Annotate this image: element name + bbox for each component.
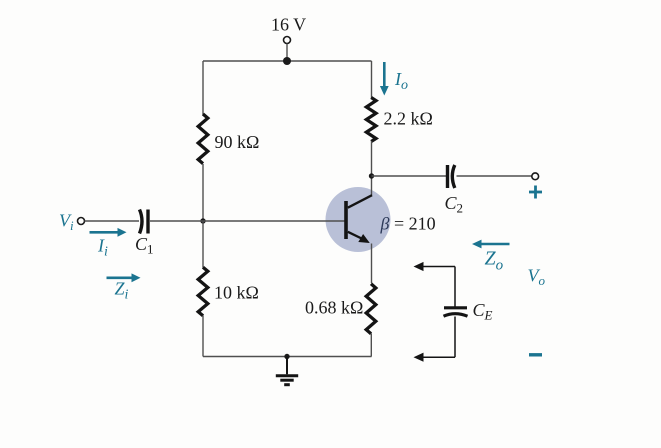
arrow Io — [380, 62, 389, 96]
wire left branch upper — [202, 61, 204, 115]
wire 0.68k to bottom rail — [370, 334, 372, 357]
wire 2.2k to collector — [371, 141, 373, 196]
wire base node down — [202, 221, 204, 268]
resistor 90 kOhm — [198, 114, 208, 164]
wire CE upper — [454, 267, 456, 308]
arrow Ii — [90, 228, 127, 237]
wire CE lower — [454, 317, 456, 358]
resistor 0.68 kOhm — [366, 284, 376, 334]
svg-text:β = 210: β = 210 — [380, 214, 436, 234]
wire input to C1 — [85, 220, 139, 222]
svg-text:0.68 kΩ: 0.68 kΩ — [305, 298, 363, 318]
bracket CE top with arrow — [414, 262, 456, 271]
capacitor C1 — [140, 210, 149, 234]
label minus — [529, 353, 542, 356]
arrow Zo — [472, 240, 510, 249]
label plus — [529, 186, 542, 199]
node ground junction — [284, 354, 289, 359]
transistor Q1 — [344, 195, 372, 243]
output terminal — [532, 173, 539, 180]
wire 90k to base node — [202, 164, 204, 221]
wire right branch upper — [371, 61, 373, 98]
node base junction — [200, 218, 205, 223]
bracket CE bottom with arrow — [414, 353, 456, 362]
wire emitter down — [371, 244, 373, 284]
transistor highlight circle — [326, 187, 391, 252]
wire C1 to base — [150, 220, 345, 222]
wire 10k to bottom rail — [202, 316, 204, 357]
resistor 10 kOhm — [198, 267, 208, 316]
junction supply node — [283, 57, 291, 65]
input terminal Vi — [78, 218, 85, 225]
wire top rail — [203, 60, 372, 62]
node collector junction — [369, 173, 374, 178]
wire collector node to C2 — [372, 175, 447, 177]
capacitor CE — [444, 308, 468, 316]
capacitor C2 — [448, 165, 455, 188]
wire C2 to output terminal — [457, 175, 532, 177]
svg-text:10 kΩ: 10 kΩ — [214, 283, 259, 303]
svg-text:2.2 kΩ: 2.2 kΩ — [384, 109, 433, 129]
wire bottom rail — [203, 356, 372, 358]
arrow Zi — [107, 273, 141, 282]
supply terminal 16 V — [284, 37, 291, 62]
svg-text:16 V: 16 V — [271, 15, 306, 35]
ground — [276, 357, 298, 385]
svg-text:90 kΩ: 90 kΩ — [215, 132, 260, 152]
resistor 2.2 kOhm — [366, 98, 376, 142]
